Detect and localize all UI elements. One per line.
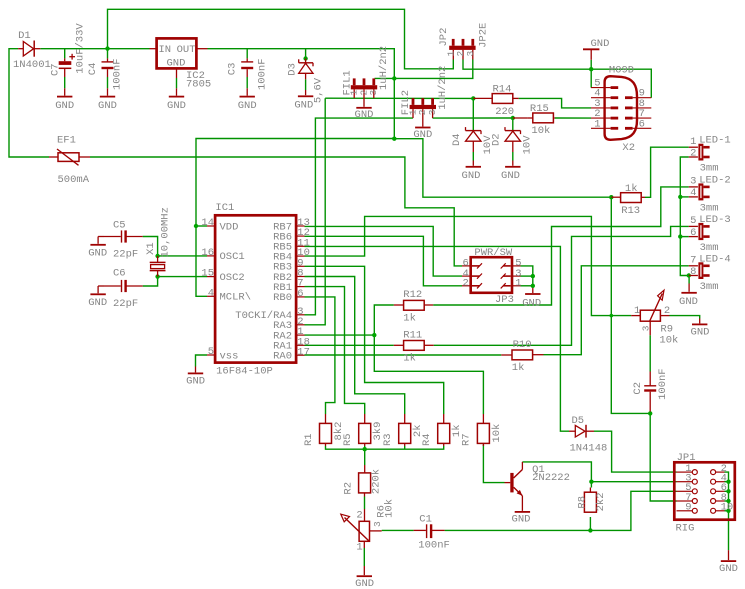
svg-text:R2: R2 [343,482,355,495]
capacitor C1 [414,529,426,531]
svg-text:PWR/SW: PWR/SW [474,247,513,259]
LED LED-1 [689,146,698,148]
capacitor C2 [649,372,651,386]
svg-text:LED-2: LED-2 [699,174,731,186]
junction R8 bottom/C1 [588,528,592,532]
resistor R14 [473,97,492,99]
svg-text:JP3: JP3 [495,294,514,306]
junction X1/OSC1 [155,254,159,258]
junction RA2/R12/R7 [372,333,376,337]
wire R11 to LED-3 pin5 [434,226,689,345]
svg-text:15: 15 [201,268,214,280]
svg-text:16F84-10P: 16F84-10P [216,366,273,378]
ground R9 [699,319,701,324]
svg-text:R10: R10 [513,339,532,351]
svg-text:6: 6 [297,288,303,300]
junction 5V/VDD [392,137,396,141]
resistor R3 [404,414,406,423]
svg-text:R5: R5 [342,433,354,446]
svg-text:220k: 220k [370,469,382,494]
junction JP1 pin6 [726,489,730,493]
svg-text:16: 16 [201,247,214,259]
svg-text:GND: GND [238,100,257,112]
svg-text:GND: GND [512,513,531,525]
connector JP3 PWR/SW [471,257,512,293]
jumper JP2 [449,46,475,50]
resistor R4 [443,414,445,423]
wire D5 to JP1 pin1 [594,431,677,472]
svg-text:D1: D1 [18,30,31,42]
svg-text:3mm: 3mm [700,202,719,214]
svg-text:10: 10 [721,502,734,514]
filter FIL1 [351,85,377,89]
capacitor C6 [104,285,121,287]
svg-text:5,6V: 5,6V [313,77,325,103]
junction 5V/R13 [609,195,613,199]
svg-text:3: 3 [465,51,476,57]
wire R8 bottom stub [589,517,591,530]
capacitor C3 [246,58,248,62]
svg-text:1k: 1k [403,353,416,365]
svg-text:1: 1 [594,118,600,130]
wire RA1 to R11 [305,344,394,346]
svg-text:GND: GND [167,100,186,112]
svg-text:GND: GND [88,248,107,260]
svg-text:1uH/2n2: 1uH/2n2 [378,46,390,90]
junction LED3 cathode [678,234,682,238]
svg-text:10k: 10k [491,424,503,443]
junction X1/OSC2 [155,274,159,278]
svg-text:M09D: M09D [609,65,634,77]
svg-text:1: 1 [515,278,521,290]
svg-text:100nF: 100nF [418,539,450,551]
junction 5V/R9 pin1 [610,314,614,318]
svg-text:GND: GND [186,376,205,388]
svg-text:2: 2 [664,305,670,317]
junction C2 bottom [648,411,652,415]
wire C4 top segment [107,49,109,59]
svg-text:1N4001: 1N4001 [13,59,51,71]
wire 5V south to C2 bottom JP1 pin7 [611,197,650,413]
LED LED-2 [689,186,698,188]
ground LED-4 [688,284,690,292]
junction JP3 pin3 gnd [531,274,535,278]
wire 5V to JP2 pin3 [394,60,473,79]
ground R6 [363,566,365,575]
wire RA2 to junction [305,334,375,336]
svg-text:1: 1 [356,541,362,553]
diode D1 [18,48,23,50]
svg-text:R8: R8 [576,496,588,509]
svg-text:7805: 7805 [186,79,211,91]
wire resistor common row [326,446,444,449]
wire C3 top segment [246,49,248,59]
diode D5 [569,430,575,432]
resistor R5 [364,414,366,423]
regulator IC2 7805 [150,48,157,50]
svg-text:GND: GND [355,109,374,121]
svg-text:9: 9 [685,502,691,514]
wire C7 gnd segment [64,77,66,88]
zener D4 [472,125,474,131]
capacitor C7 [64,58,66,61]
svg-text:10V: 10V [522,135,534,155]
wire RB0 to R1 [305,297,335,414]
wire JP1 pin8 stub [725,500,729,502]
svg-text:220: 220 [495,106,514,118]
wire R15 to DB9 pin2 [555,117,591,119]
resistor R7 [482,414,484,423]
wire JP1 pin4 stub [725,481,729,483]
wire RB3 to R4 [305,266,444,414]
ground JP1 [728,550,730,560]
svg-text:14: 14 [201,217,214,229]
svg-text:GND: GND [679,296,698,308]
wire GND net to DB9 pin5 [590,69,592,87]
IC U1 IC1 16F84-10P [215,215,296,362]
junction at C4 top [105,46,109,50]
svg-text:GND: GND [55,100,74,112]
svg-text:vss: vss [220,350,239,362]
wire R6 pin1 segment [363,548,365,566]
wire 5V to IC1 VDD and MCLR [196,139,394,297]
wire JP2 pin2 GND to DB9 pin5 pin9 [463,60,651,98]
svg-text:EF1: EF1 [57,135,76,147]
wire LED-3 pin6 stub [680,236,689,238]
wire EF1 out to JP3 pin6 [90,157,462,266]
wire Q1 collector to JP1 pin3 [522,462,676,482]
svg-text:R11: R11 [403,329,422,341]
wire FIL2 pin3 to D2 R15 [433,117,513,119]
svg-text:GND: GND [719,563,738,575]
junction LED2 cathode [678,195,682,199]
resistor R8 [589,488,591,492]
svg-text:1k: 1k [625,183,638,195]
wire D2 top segment [512,118,514,125]
wire R9 wiper to C2 [649,341,651,372]
wire RB4 to R9 pot pin1 [305,216,632,315]
wire JP3 pin3 stub [521,275,533,277]
wire D3 gnd segment [305,79,307,90]
svg-text:500mA: 500mA [58,174,90,186]
svg-text:FIL1: FIL1 [341,70,353,95]
svg-text:GND: GND [294,99,313,111]
svg-text:3mm: 3mm [700,163,719,175]
wire LED-2 pin4 stub [680,196,689,198]
svg-text:2: 2 [356,510,362,522]
wire RB5 to D5 anode [305,246,570,431]
connector X2 M09D DB9 [605,76,637,140]
wire R2 top stub [364,449,366,465]
wire R5 bottom stub [364,446,366,449]
wire raw input via EF1 to JP3 pin6 [9,49,49,157]
wire RB2 to R3 [305,277,405,415]
wire LED-4 pin8 GND stub [688,276,690,284]
ground vss [195,367,197,373]
wire FIL1/FIL2 row to R14 junction [325,97,473,99]
resistor R15 [528,117,533,119]
wire vss to GND [196,355,208,367]
svg-text:RIG: RIG [676,523,695,535]
svg-text:GND: GND [98,100,117,112]
svg-text:7: 7 [690,255,696,267]
potentiometer R9 [631,315,640,317]
wire C2 bottom to JP1 pin7 [650,413,676,501]
junction LED4 cathode gnd [687,273,691,277]
svg-text:D2: D2 [491,133,503,146]
svg-text:4: 4 [690,187,696,199]
svg-text:3: 3 [690,176,696,188]
wire D2 gnd segment [512,152,514,161]
junction R2 top [363,447,367,451]
wire R6 wiper to C1 [382,529,414,531]
svg-text:2: 2 [462,278,468,290]
svg-text:R14: R14 [493,83,512,95]
connector JP1 RIG [674,462,735,519]
wire RA0 to R10 [305,354,502,356]
svg-text:17: 17 [297,346,310,358]
svg-text:R13: R13 [621,205,640,217]
svg-text:10uF/33V: 10uF/33V [74,23,86,74]
svg-text:X1: X1 [145,242,157,255]
svg-text:1N4148: 1N4148 [570,443,608,455]
svg-text:100nF: 100nF [657,368,669,400]
LED LED-4 [689,265,698,267]
resistor R11 [394,344,404,346]
svg-text:10k: 10k [659,335,678,347]
wire JP1 pin10 stub [725,510,729,512]
svg-text:1k: 1k [403,313,416,325]
wire LED cathode rail [680,157,689,276]
svg-text:3: 3 [372,521,383,527]
crystal X1 [157,256,159,263]
wire C5 to OSC1 [143,237,207,256]
junction R14/D4/FIL1 [471,96,475,100]
ground JP3 [532,288,534,293]
svg-text:4: 4 [208,287,214,299]
wire R7 bottom to Q1 base [483,445,504,483]
resistor R10 [501,354,512,356]
wire R9 pin2 to GND [670,316,700,319]
svg-text:LED-3: LED-3 [699,214,731,226]
svg-text:10k: 10k [383,499,395,518]
wire R10 to LED-4 pin7 [544,266,689,355]
svg-text:3mm: 3mm [700,281,719,293]
svg-text:GND: GND [691,326,710,338]
wire FIL2 pin1 to RA4 [305,118,413,315]
wire R3 bottom stub [404,446,406,449]
svg-text:OUT: OUT [177,44,196,56]
svg-text:6: 6 [690,227,696,239]
LED LED-3 [689,225,698,227]
zener D3 [305,59,307,63]
svg-text:JP2E: JP2E [477,23,489,48]
junction JP3 pin1 gnd [531,284,535,288]
svg-text:1: 1 [690,136,696,148]
svg-text:3mm: 3mm [700,242,719,254]
wire VDD stub [196,225,207,227]
svg-text:C4: C4 [87,63,99,76]
wire 5V rail IC2 OUT south [208,49,395,139]
wire raw+9V top loop C4 to JP2 pin1 [108,9,454,69]
wire C6 to OSC2 [143,277,207,286]
svg-text:RB0: RB0 [273,292,292,304]
svg-text:R3: R3 [382,433,394,446]
capacitor C5 [104,236,121,238]
svg-text:10,00MHz: 10,00MHz [159,207,171,257]
svg-text:GND: GND [462,170,481,182]
svg-text:MCLR\: MCLR\ [220,292,252,304]
wire GND symbol stub at DB9 [590,60,592,69]
svg-text:RA0: RA0 [273,351,292,363]
svg-text:C7: C7 [49,63,61,76]
junction JP1 pin4 [726,480,730,484]
svg-text:GND: GND [591,38,610,50]
wire C7 top segment [64,49,66,59]
svg-text:C1: C1 [419,514,432,526]
svg-text:3: 3 [640,325,651,331]
svg-text:IN: IN [159,44,172,56]
wire net to RA3 via FIL1 pin1 column [305,98,326,325]
svg-text:100nF: 100nF [256,58,268,90]
svg-text:1: 1 [634,305,640,317]
svg-text:5: 5 [690,215,696,227]
wire R2 bottom to R6 pin2 [364,497,366,510]
wire junction up to R12 [374,305,394,335]
wire C4 gnd segment [107,77,109,88]
svg-text:22pF: 22pF [113,298,138,310]
svg-text:10k: 10k [531,125,550,137]
filter FIL2 [410,105,436,109]
svg-text:1uH/2n2: 1uH/2n2 [437,66,449,110]
svg-text:R1: R1 [303,433,315,446]
junction VDD pin14 [194,224,198,228]
svg-text:C3: C3 [227,63,239,76]
resistor R2 [364,465,366,473]
svg-text:OSC1: OSC1 [220,251,245,263]
svg-text:D5: D5 [572,415,585,427]
svg-text:2k2: 2k2 [595,492,607,511]
wire R14 to DB9 pin3 [519,98,591,108]
svg-text:GND: GND [501,170,520,182]
svg-text:C6: C6 [113,267,126,279]
svg-text:22pF: 22pF [113,248,138,260]
wire RB6 to JP3 pin2 [305,236,463,285]
transistor Q1 2N2222 [505,482,511,484]
fuse EF1 [49,156,58,158]
wire RB1 to R5 [305,287,365,414]
svg-text:2N2222: 2N2222 [532,472,570,484]
wire C1 to JP1 pin5 [445,491,677,530]
junction JP1 pin8 [726,499,730,503]
wire D3 top segment [305,49,307,59]
svg-text:8: 8 [690,266,696,278]
wire junction to R8 top [590,482,592,488]
svg-text:D3: D3 [286,63,298,76]
svg-text:GND: GND [522,297,541,309]
junction Q1 collector/R8/JP1 pin3 [589,480,593,484]
wire JP1 pin6 stub [725,490,729,492]
svg-text:JP2: JP2 [438,28,450,47]
svg-text:GND: GND [88,297,107,309]
svg-text:GND: GND [413,129,432,141]
junction R15/D2/FIL2 [511,116,515,120]
svg-text:R7: R7 [461,433,473,446]
svg-text:R4: R4 [421,433,433,446]
resistor R1 [325,414,327,423]
wire JP1 right pins common [725,472,729,550]
svg-text:R15: R15 [530,103,549,115]
wire 5V to FIL1 pin3 [375,77,395,79]
svg-text:GND: GND [355,578,374,589]
wire D4 gnd segment [472,152,474,161]
svg-text:5: 5 [208,346,214,358]
svg-text:FIL2: FIL2 [400,90,412,115]
svg-text:100nF: 100nF [111,58,123,90]
resistor R12 [394,304,404,306]
junction JP1 pin10 [726,509,730,513]
wire IC2 gnd segment [176,78,178,88]
svg-text:VDD: VDD [220,221,239,233]
wire R13 to LED-1 pin1 [645,147,689,197]
ground above DB9 [583,48,599,50]
wire D4 top segment [472,98,474,125]
wire JP3 pins 5-3-1 to GND [521,266,533,288]
svg-text:IC1: IC1 [215,202,234,214]
wire rail D1 to IC2 IN [40,48,149,50]
wire C3 gnd segment [246,77,248,88]
svg-text:2: 2 [690,147,696,159]
svg-text:GND: GND [167,58,186,70]
svg-text:D4: D4 [451,133,463,146]
junction GND/DB9 [589,67,593,71]
svg-text:6: 6 [639,118,645,130]
svg-text:C5: C5 [113,220,126,232]
svg-text:X2: X2 [622,142,635,154]
svg-text:LED-4: LED-4 [699,253,731,265]
wire RB7 to JP3 pin4 [305,226,463,276]
capacitor C4 [107,58,109,62]
wire 5V east to R13 [394,139,611,198]
svg-text:1k: 1k [512,362,525,374]
potentiometer R6 [364,509,366,521]
wire JP3 pin1 stub [521,285,533,287]
svg-text:LED-1: LED-1 [699,135,731,147]
junction at D3 top [303,56,307,60]
zener D2 [512,125,514,131]
wire R12 to LED-2 pin3 [433,187,689,305]
svg-text:R12: R12 [403,289,422,301]
junction 5V/JP2 pin3 [392,76,396,80]
resistor R13 [611,196,620,198]
svg-text:OSC2: OSC2 [220,272,245,284]
svg-text:C2: C2 [632,382,644,395]
wire junction down to R7 [374,335,483,414]
